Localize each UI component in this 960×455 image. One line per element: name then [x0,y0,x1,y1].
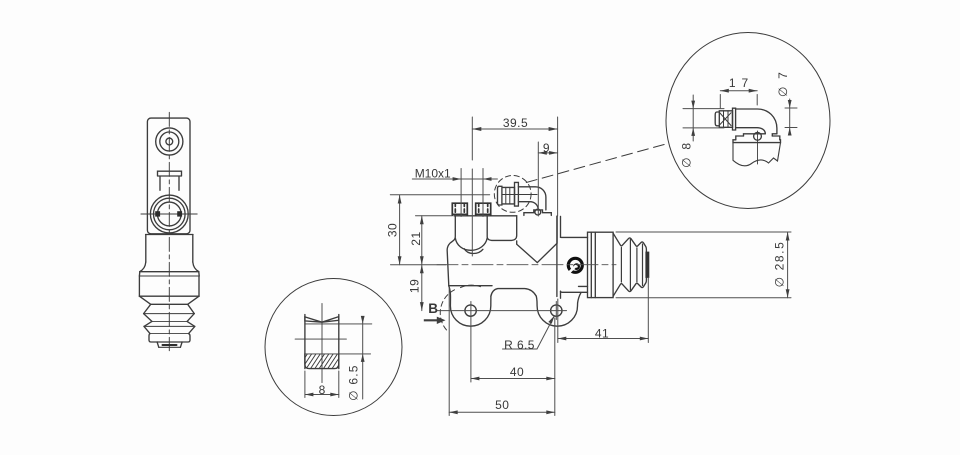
svg-text:40: 40 [510,365,524,379]
svg-text:∅ 28.5: ∅ 28.5 [773,241,787,288]
svg-text:41: 41 [595,327,609,341]
svg-text:9: 9 [543,141,550,155]
svg-text:30: 30 [386,223,400,237]
svg-text:B: B [428,301,438,316]
svg-text:19: 19 [408,279,422,293]
svg-text:17: 17 [729,76,754,90]
svg-text:21: 21 [409,231,423,245]
svg-text:8: 8 [319,383,326,397]
svg-text:∅ 7: ∅ 7 [776,70,790,97]
svg-text:50: 50 [495,398,509,412]
svg-text:39.5: 39.5 [503,116,528,130]
svg-text:∅ 6.5: ∅ 6.5 [346,364,360,400]
svg-text:M10x1: M10x1 [415,167,451,181]
svg-text:∅ 8: ∅ 8 [680,141,694,168]
svg-text:R 6.5: R 6.5 [504,338,535,352]
